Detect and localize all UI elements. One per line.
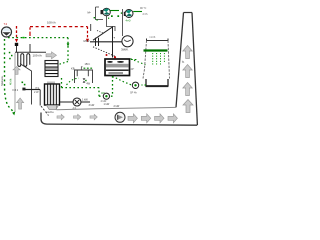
svg-text:108 t/h: 108 t/h [47, 21, 56, 25]
wire basin to gauge F [142, 84, 147, 86]
wire building left wall [14, 53, 16, 112]
wire red steam riser dashes [29, 27, 31, 34]
instrument bracket B [96, 7, 116, 31]
wire feed pipe into boiler [16, 46, 18, 52]
furnace wall dashed bottom [41, 106, 49, 116]
wire condensate long run [62, 87, 100, 89]
svg-text:Asche: Asche [46, 110, 54, 114]
wire feedwater green drop x68 [67, 38, 69, 62]
temperature gauge F [132, 82, 138, 88]
gauge C [124, 10, 133, 18]
air arrow stack 2 [183, 65, 193, 78]
svg-text:Speisew.: Speisew. [0, 75, 4, 86]
gray air arrow upper left [13, 67, 20, 75]
wire condensate riser [98, 88, 100, 97]
svg-text:2 kW: 2 kW [114, 105, 120, 108]
air preheater L1 [45, 82, 60, 106]
wire green gauge B line [110, 10, 119, 12]
svg-text:40°: 40° [131, 68, 135, 71]
booster fan F2 [115, 112, 125, 122]
svg-text:1 kW: 1 kW [82, 99, 88, 102]
gray air arrow lower left [17, 98, 24, 109]
furnace wall right [39, 90, 41, 106]
stack S1 shell [184, 12, 193, 14]
svg-text:F.B 2: F.B 2 [13, 89, 19, 92]
wire long green left line [5, 39, 14, 113]
valve V1 [15, 43, 18, 46]
water header bar [144, 49, 168, 51]
node green dots near B [111, 15, 113, 17]
wire dotted diagonal extraction [97, 31, 116, 39]
svg-text:90 °C: 90 °C [140, 7, 146, 10]
flue duct to fan [60, 101, 91, 103]
air arrow duct 4 [128, 114, 137, 123]
steam riser pipe [29, 44, 31, 52]
wire steam downcomer to turbine [87, 27, 89, 39]
condensate pump P2 [103, 93, 109, 99]
instrument bracket C line [122, 9, 124, 36]
svg-text:40 t/h: 40 t/h [10, 78, 13, 85]
wire deaerator feed branch [67, 78, 80, 85]
wire feedwater green horizontal [8, 37, 68, 39]
ash hopper [47, 105, 59, 109]
svg-text:150 t: 150 t [85, 63, 91, 66]
spray droplet grid [152, 53, 165, 65]
air arrow stack 3 [183, 83, 193, 96]
node green dots furnace [22, 82, 24, 84]
air arrow duct 3 [90, 114, 97, 120]
node red exhaust dots [106, 54, 108, 56]
boiler K1 top edge [15, 51, 46, 53]
svg-text:40°: 40° [101, 91, 105, 95]
valve V2 [83, 78, 86, 82]
node green dots left [9, 52, 11, 54]
coupling ticks [96, 38, 99, 46]
wire green condenser to tower [131, 59, 146, 65]
air arrow duct 6 [155, 114, 164, 123]
wire condensate bottom run [99, 95, 113, 97]
flue gas arrow in boiler top [46, 52, 57, 59]
svg-text:P.S: P.S [36, 87, 40, 90]
svg-text:MD2: MD2 [84, 39, 90, 43]
svg-text:2 t/h: 2 t/h [143, 13, 148, 16]
wire green gauge C line [133, 11, 142, 13]
air arrow stack 1 [183, 46, 193, 59]
induced draft fan G1 [73, 98, 81, 106]
svg-text:4+Θ: 4+Θ [126, 19, 131, 23]
deaerator tank D1 [75, 70, 93, 83]
turbine T1 [93, 27, 116, 58]
condenser C1 [105, 59, 130, 76]
air arrow duct 7 [168, 114, 177, 123]
svg-text:M•: M• [88, 10, 91, 14]
svg-text:109 t/h: 109 t/h [33, 53, 43, 57]
duct top edge [57, 107, 177, 109]
fuel feed line [26, 89, 41, 91]
wire green to economizer [59, 62, 69, 65]
svg-text:2 W: 2 W [34, 91, 39, 94]
svg-text:Ig.: Ig. [182, 60, 185, 63]
economizer E1 [45, 61, 58, 77]
wire main steam line red dashed [30, 26, 88, 28]
air arrow duct 1 [57, 114, 64, 120]
generator G1 [122, 36, 133, 47]
air arrow duct 5 [141, 114, 150, 123]
air arrow duct 2 [74, 114, 81, 120]
wire red feed drop [16, 26, 18, 39]
wire ground outline bottom [41, 113, 197, 126]
gauge B [101, 8, 111, 16]
wire turbine inlet stub [90, 24, 92, 31]
feedwater pump P1 [2, 27, 12, 37]
wire condensate from condenser [112, 76, 114, 96]
basin tray [146, 79, 168, 86]
cooling tower W1 shell [143, 39, 170, 79]
svg-text:1 kW: 1 kW [104, 103, 110, 106]
svg-text:T.2: T.2 [4, 22, 8, 26]
wire green return diagonal [113, 77, 131, 85]
svg-text:3MW.: 3MW. [121, 48, 129, 52]
shaft line [90, 41, 122, 43]
furnace wall diagonal [20, 64, 32, 105]
svg-text:3 kW: 3 kW [89, 104, 95, 107]
svg-text:≈1 t/h: ≈1 t/h [149, 36, 156, 39]
feeder box [22, 88, 25, 91]
air arrow stack base [183, 100, 193, 113]
svg-text:4W: 4W [86, 83, 90, 86]
superheater serpentine coil [18, 53, 30, 67]
svg-text:SP 4h: SP 4h [130, 92, 137, 95]
wire condensate to economizer [61, 77, 63, 88]
